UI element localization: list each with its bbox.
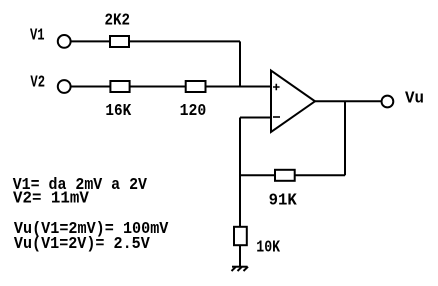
svg-text:V2= 11mV: V2= 11mV [13,190,90,209]
wire R 120 to op-amp plus input [206,86,272,88]
svg-text:16K: 16K [105,102,131,121]
ground [232,267,249,271]
wire R 10K to ground [239,245,241,267]
wire V1 terminal to R 2K2 [71,40,110,42]
resistor 2K2 [110,36,129,47]
wire feedback left segment [240,174,275,176]
wire corner down to plus-input line [239,41,241,86]
svg-text:Vu(V1=2V)= 2.5V: Vu(V1=2V)= 2.5V [14,235,151,254]
svg-text:91K: 91K [269,192,298,211]
wire R 2K2 to corner [129,40,240,42]
wire minus node down to R 10K [239,118,241,227]
svg-text:2K2: 2K2 [105,11,131,30]
node V2 (input terminal) [58,80,71,93]
wire feedback right segment [295,174,345,176]
svg-text:10K: 10K [256,239,280,258]
svg-text:V1: V1 [30,27,45,46]
resistor 120 [186,81,206,92]
svg-text:Vu: Vu [405,90,424,109]
node Vu (output terminal) [382,96,394,108]
resistor 16K [110,81,129,92]
svg-text:120: 120 [180,102,207,121]
op-amp minus sign [273,116,280,118]
node V1 (input terminal) [58,35,71,48]
wire minus input [240,117,271,119]
op-amp U1 triangle [271,71,315,133]
resistor 91K [275,170,295,181]
wire output down to feedback [344,101,346,175]
wire op-amp output to Vu terminal [315,100,382,102]
svg-text:V2: V2 [30,73,45,92]
wire R 16K to R 120 [130,86,186,88]
resistor 10K (vertical) [234,227,247,245]
op-amp plus sign [273,84,280,91]
wire V2 terminal to R 16K [71,86,111,88]
